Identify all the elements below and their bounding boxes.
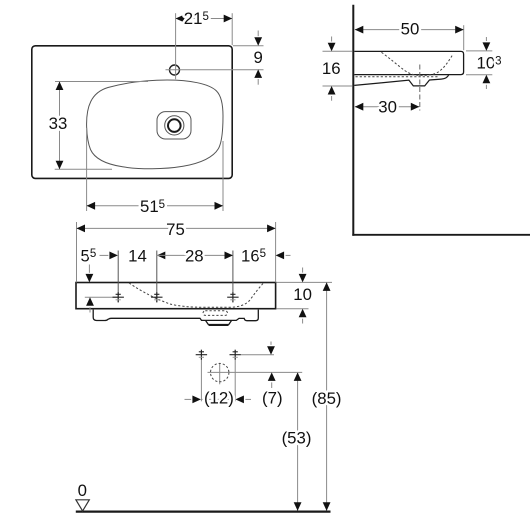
svg-text:9: 9 <box>254 48 263 67</box>
svg-text:16: 16 <box>322 59 341 78</box>
svg-text:14: 14 <box>128 246 147 265</box>
svg-text:28: 28 <box>185 246 204 265</box>
svg-text:0: 0 <box>78 481 87 500</box>
svg-text:33: 33 <box>49 114 68 133</box>
svg-text:(53): (53) <box>282 429 312 448</box>
svg-text:(7): (7) <box>262 389 283 408</box>
svg-text:75: 75 <box>166 220 185 239</box>
svg-text:(85): (85) <box>312 389 342 408</box>
svg-text:50: 50 <box>401 20 420 39</box>
svg-text:10: 10 <box>293 285 312 304</box>
svg-text:(12): (12) <box>204 389 234 408</box>
svg-text:30: 30 <box>378 97 397 116</box>
